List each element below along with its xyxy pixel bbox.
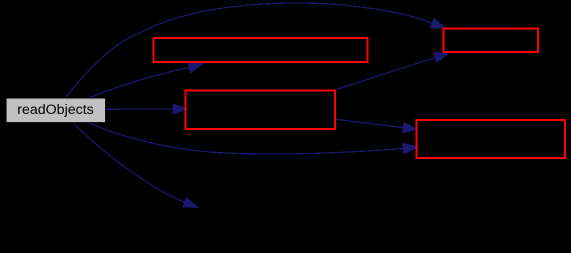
svg-text:readObjects: readObjects	[17, 102, 94, 118]
arrowhead into top-right box top-left	[430, 18, 447, 29]
wire edge readObjects to bottom-right box (long flat curve)	[87, 122, 403, 154]
arrowhead into bottom-right box upper-left	[402, 122, 419, 134]
node box top-middle (red, truncated)	[153, 38, 367, 62]
arrowhead into top-middle box bottom edge	[187, 62, 205, 74]
wire edge readObjects to top-right box (big top curve)	[66, 3, 431, 97]
node box bottom-right (red, truncated)	[416, 120, 565, 158]
wire edge readObjects to top-middle box	[90, 68, 189, 98]
wire edge middle box to bottom-right box	[336, 119, 403, 127]
arrowhead into top-right box bottom-left	[433, 52, 450, 63]
node box top-right (red, truncated)	[443, 28, 538, 52]
arrowhead into bottom-right box lower-left	[402, 143, 420, 155]
arrowhead into middle box left edge	[172, 103, 189, 115]
wire edge readObjects to middle box (horizontal)	[105, 108, 172, 110]
wire edge readObjects to hidden node below	[73, 123, 184, 203]
wire edge middle box to top-right box	[335, 58, 435, 90]
node readObjects (current node, gray)	[6, 98, 106, 123]
node box middle (red, truncated, two-line)	[185, 90, 335, 129]
arrowhead to hidden node	[182, 197, 199, 208]
